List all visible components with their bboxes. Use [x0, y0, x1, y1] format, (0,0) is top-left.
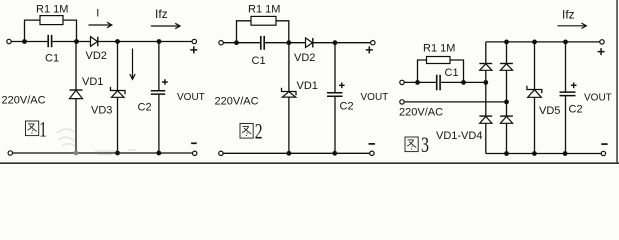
- plus sign output: [190, 46, 197, 53]
- current arrow Ifz: [558, 23, 587, 28]
- wire C1 to node B: [52, 41, 90, 43]
- svg-text:220V/AC: 220V/AC: [215, 96, 259, 108]
- diode VD2: [91, 37, 98, 47]
- output terminal top-right: [371, 41, 375, 45]
- resistor R1 branch wires: [25, 20, 77, 41]
- minus sign output: [191, 142, 197, 144]
- bottom-right terminal: [370, 151, 374, 155]
- wire input to C1: [223, 42, 260, 44]
- svg-text:C1: C1: [252, 55, 266, 67]
- node C junction: [333, 40, 338, 45]
- junction upper wire / left column: [483, 80, 488, 85]
- svg-text:VD2: VD2: [86, 50, 107, 62]
- zener VD3: [111, 87, 126, 95]
- svg-text:I: I: [96, 7, 99, 19]
- resistor R1 body: [251, 16, 276, 25]
- svg-text:3: 3: [421, 132, 429, 157]
- current arrow I: [89, 22, 112, 27]
- wire VD5 column: [534, 42, 536, 154]
- bridge diode upper-right: [500, 63, 513, 65]
- svg-text:C2: C2: [138, 102, 152, 114]
- node D junction: [157, 39, 162, 44]
- wire VD1 column: [75, 42, 77, 154]
- wire C2 column: [158, 42, 160, 154]
- wire VD2 to output terminal: [313, 42, 371, 44]
- svg-text:VD1: VD1: [82, 76, 103, 88]
- plus sign C2: [162, 79, 168, 85]
- lower input wire: [404, 101, 506, 103]
- label 图3: [405, 137, 418, 152]
- svg-text:R1 1M: R1 1M: [36, 4, 68, 16]
- capacitor C2: [327, 93, 343, 97]
- svg-text:VD1-VD4: VD1-VD4: [436, 130, 482, 142]
- wire VD2 to output terminal: [98, 41, 192, 43]
- bridge diode upper-left: [479, 63, 492, 65]
- zener VD5: [527, 86, 542, 94]
- junction lower wire / right column: [504, 100, 509, 105]
- svg-text:VD1: VD1: [297, 80, 318, 92]
- svg-text:VD3: VD3: [91, 105, 112, 117]
- capacitor C2: [151, 91, 165, 94]
- resistor R1 branch wires: [237, 21, 289, 43]
- top rail junctions: [504, 40, 509, 45]
- resistor R1 branch wires: [418, 60, 464, 82]
- plus sign output: [598, 48, 605, 55]
- input terminal top-left: [7, 39, 11, 43]
- plus sign output: [366, 46, 373, 53]
- svg-text:220V/AC: 220V/AC: [399, 107, 443, 119]
- node C junction: [115, 39, 120, 44]
- arrow down (charge current): [130, 49, 135, 80]
- page border right: [616, 0, 618, 164]
- bridge diode lower-right: [500, 115, 513, 117]
- diode VD1: [70, 89, 83, 91]
- bottom rail junctions: [504, 151, 509, 156]
- svg-text:C2: C2: [340, 101, 354, 113]
- svg-text:VOUT: VOUT: [177, 92, 205, 103]
- bottom rail: [223, 152, 369, 154]
- bottom-left terminal: [219, 151, 223, 155]
- svg-text:C1: C1: [45, 53, 59, 65]
- node B junction: [286, 40, 291, 45]
- wire VD3 column: [117, 42, 119, 154]
- bottom rail: [486, 153, 601, 155]
- svg-text:C1: C1: [445, 67, 459, 79]
- resistor R1 body: [40, 16, 63, 25]
- svg-text:R1 1M: R1 1M: [423, 43, 455, 55]
- svg-text:VOUT: VOUT: [361, 92, 389, 103]
- output terminal top-right: [192, 39, 196, 43]
- svg-text:1: 1: [39, 116, 47, 141]
- input terminal top-left: [219, 41, 223, 45]
- input terminal lower: [400, 100, 404, 104]
- capacitor C1 (series): [437, 75, 440, 91]
- node B junction: [74, 39, 79, 44]
- wire C2 column: [565, 42, 567, 154]
- node A junction: [22, 39, 27, 44]
- capacitor C1: [48, 35, 51, 47]
- svg-text:VD5: VD5: [539, 105, 560, 117]
- svg-text:R1 1M: R1 1M: [248, 4, 280, 16]
- bridge left column wire: [485, 42, 487, 154]
- minus sign output: [601, 143, 607, 145]
- input terminal upper: [400, 80, 404, 84]
- bottom-left terminal: [8, 151, 12, 155]
- svg-text:C2: C2: [569, 104, 583, 116]
- svg-text:VD2: VD2: [294, 52, 315, 64]
- watermark remnant (faint): [57, 129, 136, 154]
- output terminal top-right: [600, 40, 604, 44]
- plus sign C2: [339, 83, 345, 89]
- top rail: [486, 41, 600, 43]
- plus sign C2: [571, 83, 577, 89]
- resistor R1 body: [427, 57, 451, 64]
- svg-text:220V/AC: 220V/AC: [2, 94, 46, 106]
- bottom rail junctions: [287, 151, 292, 156]
- svg-text:VOUT: VOUT: [584, 93, 612, 104]
- node A junction: [415, 80, 420, 85]
- minus sign output: [369, 143, 375, 145]
- bottom rail: [13, 152, 193, 154]
- bridge right column wire: [506, 42, 508, 154]
- node A junction: [234, 40, 239, 45]
- capacitor C1: [261, 36, 264, 50]
- zener VD1: [282, 88, 297, 96]
- svg-text:Ifz: Ifz: [155, 7, 168, 21]
- wire C1 to node B: [265, 42, 306, 44]
- page border bottom: [0, 162, 619, 164]
- current arrow Ifz: [151, 23, 180, 28]
- upper input wire: [404, 81, 486, 83]
- bottom rail junctions: [74, 151, 79, 156]
- bottom-right terminal: [601, 151, 605, 155]
- wire VD1 column: [288, 43, 290, 154]
- node B junction: [461, 80, 466, 85]
- capacitor C2: [560, 92, 576, 96]
- bridge diode lower-left: [479, 115, 492, 117]
- wire C2 column: [334, 43, 336, 154]
- wire top from input to C1: [11, 41, 47, 43]
- diode VD2: [306, 38, 313, 48]
- bottom-right terminal: [193, 151, 197, 155]
- svg-text:Ifz: Ifz: [562, 8, 575, 22]
- svg-text:2: 2: [255, 118, 263, 143]
- label 图1: [26, 121, 39, 136]
- label 图2: [240, 124, 253, 139]
